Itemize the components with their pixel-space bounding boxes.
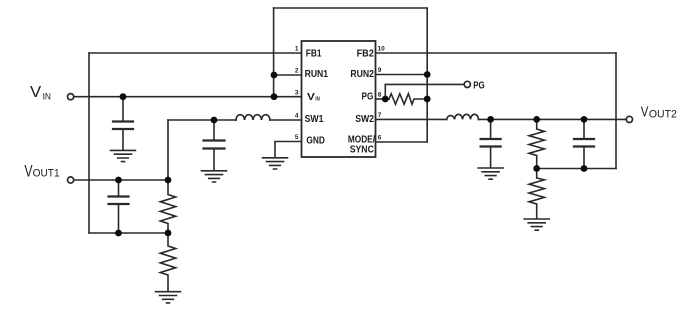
svg-text:2: 2 (295, 68, 299, 75)
node PG pin junction (382, 96, 389, 103)
wire top interconnect left vertical to VIN node (273, 8, 275, 97)
node VIN junction at rail (271, 93, 278, 100)
svg-text:V: V (307, 92, 315, 103)
terminal VIN (68, 94, 74, 100)
svg-text:IN: IN (315, 96, 319, 102)
svg-text:8: 8 (378, 92, 382, 99)
resistor R5 PG pull-up (389, 94, 427, 105)
capacitor C1 (122, 97, 124, 150)
svg-text:PG: PG (362, 91, 374, 102)
wire VOUT1 (75, 179, 168, 181)
wire PG branch vertical (384, 84, 386, 99)
ground C2 (202, 171, 227, 182)
svg-text:V: V (30, 84, 42, 101)
wire GND pin 5 to ground (275, 142, 302, 158)
wire SW1 pin 4 to inductor (270, 119, 302, 121)
node RUN1 junction (271, 72, 278, 79)
capacitor C3 (118, 180, 120, 233)
wire SW2 inductor to VOUT2 terminal (479, 118, 626, 120)
ground GND pin (263, 158, 288, 169)
node SW2 R3 junction (533, 116, 540, 123)
ground C1 (111, 150, 136, 161)
IC U1 dual step-down regulator (302, 41, 376, 157)
svg-text:6: 6 (378, 135, 382, 142)
svg-text:9: 9 (378, 67, 382, 74)
svg-text:FB1: FB1 (306, 48, 322, 59)
node FB1 cap bottom junction (115, 230, 122, 237)
node PG resistor rail junction (424, 96, 431, 103)
node FB1 divider junction (165, 230, 172, 237)
svg-text:7: 7 (378, 112, 382, 119)
terminal PG (464, 81, 470, 87)
capacitor C4 (490, 119, 492, 167)
wire top interconnect right vertical to MODE/SYNC (426, 8, 428, 142)
svg-text:SYNC: SYNC (350, 145, 374, 156)
svg-text:V: V (641, 105, 649, 121)
svg-text:SW1: SW1 (305, 114, 324, 125)
ground C4 (478, 168, 503, 179)
node VIN cap junction (120, 93, 127, 100)
svg-text:SW2: SW2 (355, 114, 374, 125)
node SW2 cap junction (487, 116, 494, 123)
svg-text:1: 1 (295, 46, 299, 53)
node RUN2 junction (424, 71, 431, 78)
wire MODE/SYNC pin (376, 141, 428, 143)
wire PG pin (376, 98, 390, 100)
node FB2 divider junction (533, 165, 540, 172)
wire SW1 inductor to corner (168, 119, 236, 121)
node SW1 cap junction (211, 117, 218, 124)
wire FB2 right vertical rail (615, 53, 617, 169)
wire FB2 horizontal from pin 10 (376, 52, 617, 54)
svg-text:5: 5 (295, 134, 299, 141)
wire SW2 pin 7 to inductor (376, 118, 447, 120)
wire PG branch horizontal to terminal (385, 83, 463, 85)
svg-text:RUN1: RUN1 (305, 69, 329, 80)
wire SW1 vertical drop to VOUT1 node (167, 120, 169, 180)
resistor R3 (529, 119, 544, 168)
node FB2 C5 bottom junction (581, 165, 588, 172)
svg-text:OUT1: OUT1 (33, 167, 60, 179)
node VOUT1 R1 junction (165, 177, 172, 184)
inductor L1 (236, 115, 270, 120)
svg-text:10: 10 (378, 46, 386, 53)
inductor L2 (447, 114, 479, 119)
ground R2 (156, 292, 181, 303)
svg-text:3: 3 (295, 90, 299, 97)
terminal VOUT1 (68, 177, 74, 183)
resistor R2 (160, 233, 175, 292)
resistor R1 (160, 180, 175, 233)
svg-text:PG: PG (473, 81, 485, 92)
svg-text:OUT2: OUT2 (649, 108, 677, 120)
ground R4 (524, 219, 549, 230)
wire RUN1 (274, 74, 302, 76)
svg-text:GND: GND (306, 136, 325, 147)
wire top interconnect horizontal (274, 7, 428, 9)
resistor R4 (529, 169, 544, 219)
wire FB1 horizontal from pin 1 (89, 52, 302, 54)
svg-text:4: 4 (295, 113, 299, 120)
capacitor C2 (213, 120, 215, 171)
wire FB1 bottom horizontal to divider tap (89, 232, 168, 234)
svg-text:IN: IN (43, 91, 51, 101)
wire VIN (74, 96, 301, 98)
capacitor C5 (583, 119, 585, 168)
node SW2 C5 junction (581, 116, 588, 123)
terminal VOUT2 (626, 116, 632, 122)
wire FB1 left vertical rail (88, 53, 90, 233)
node VOUT1 cap junction (115, 177, 122, 184)
wire FB2 bottom horizontal to divider tap (537, 168, 616, 170)
svg-text:FB2: FB2 (357, 48, 375, 59)
wire RUN2 (376, 74, 428, 76)
svg-text:RUN2: RUN2 (350, 69, 374, 80)
